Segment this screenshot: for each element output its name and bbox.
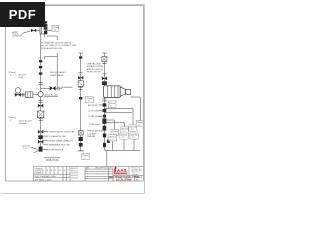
svg-text:0: 0 xyxy=(86,170,87,172)
svg-text:ACONMED 2.2013: ACONMED 2.2013 xyxy=(35,178,53,181)
svg-text:20mm FL-200: 20mm FL-200 xyxy=(45,94,59,96)
svg-text:1": 1" xyxy=(84,157,86,159)
svg-text:OPEN VALVE: OPEN VALVE xyxy=(50,74,64,77)
svg-text:AAS: AAS xyxy=(117,168,127,173)
valve on cross link xyxy=(50,86,56,91)
wire: small link y96 xyxy=(44,95,58,97)
svg-text:WIRE: WIRE xyxy=(12,33,18,35)
titleblock tiny text left xyxy=(35,167,113,181)
svg-text:FCAL.2mm: FCAL.2mm xyxy=(90,123,100,126)
svg-text:NON STANDARD DWG: NON STANDARD DWG xyxy=(35,175,57,178)
tag C2 xyxy=(120,133,128,139)
flowmeter riser stub xyxy=(44,21,47,27)
svg-text:DESCRIPTION: DESCRIPTION xyxy=(95,168,108,170)
svg-text:A: A xyxy=(47,169,49,172)
strainer box xyxy=(37,111,44,117)
pipe D vertical xyxy=(102,53,107,151)
svg-text:Nm MEMBRANE: Nm MEMBRANE xyxy=(57,86,73,89)
svg-text:(25B): (25B) xyxy=(18,77,23,79)
pipe C vertical xyxy=(78,53,83,151)
svg-text:1": 1" xyxy=(10,75,12,77)
svg-text:2" FL: 2" FL xyxy=(23,148,29,150)
valve V2 on pipe A xyxy=(38,104,43,108)
svg-text:FLOWMETER WITH ISOLATION: FLOWMETER WITH ISOLATION xyxy=(41,41,72,44)
logo AAS red xyxy=(114,167,128,175)
tag B3 xyxy=(129,125,136,131)
riser flange stack xyxy=(44,21,48,33)
svg-text:LOCAL DRAW: LOCAL DRAW xyxy=(116,179,132,182)
leaders bottom-left labels xyxy=(43,132,48,150)
tag box 12mm OD xyxy=(52,25,59,31)
svg-text:0-16 BAR: 0-16 BAR xyxy=(87,132,97,135)
pipe C components xyxy=(79,56,82,58)
ladder line 2 xyxy=(104,112,132,114)
svg-text:TOTAL HOSE: TOTAL HOSE xyxy=(88,115,102,118)
svg-text:C: C xyxy=(55,170,57,172)
logo right text xyxy=(132,166,143,176)
leader above titleblock xyxy=(34,151,39,154)
lower pipe A components xyxy=(38,130,43,152)
overline mob xyxy=(44,157,60,159)
svg-text:PIPING FITTED: PIPING FITTED xyxy=(87,72,102,74)
leader 50mm-2FL xyxy=(31,147,38,150)
svg-text:[25mm]: [25mm] xyxy=(9,72,16,74)
drawing frame xyxy=(6,6,144,182)
wire: top elbow down xyxy=(47,36,57,57)
tag box 2mm xyxy=(108,101,116,107)
leader wire conduit xyxy=(22,31,31,34)
branch pipe left xyxy=(15,94,41,96)
pipe D flanges below pump xyxy=(102,99,106,101)
svg-text:CONDUIT: CONDUIT xyxy=(12,35,23,37)
tag B2 xyxy=(121,127,128,133)
svg-text:A3: A3 xyxy=(136,178,138,181)
svg-text:BREAKER LEVEL: BREAKER LEVEL xyxy=(87,65,105,68)
drops from tag row2 xyxy=(113,139,134,150)
valve top bowtie xyxy=(31,29,36,33)
pipe D upper valve xyxy=(102,57,107,62)
svg-text:[50mm]: [50mm] xyxy=(23,145,30,147)
tag box 25mm-1 (pump) xyxy=(85,96,93,102)
wire: top pipe xyxy=(31,30,52,32)
drawing sheet svg xyxy=(0,0,149,198)
tag box gaugebottom xyxy=(82,153,90,159)
drop to title block xyxy=(106,150,108,166)
svg-text:HOSE NOZZLE: HOSE NOZZLE xyxy=(49,149,64,151)
svg-text:MOB-HO23: MOB-HO23 xyxy=(46,159,59,162)
svg-text:2": 2" xyxy=(10,120,12,122)
svg-text:E: E xyxy=(64,170,66,172)
svg-text:CHECK VALVE 20 FNPT AL: CHECK VALVE 20 FNPT AL xyxy=(49,131,76,134)
page edge top xyxy=(0,4,145,6)
svg-text:D: D xyxy=(59,170,61,172)
ladder line 4 xyxy=(104,123,124,127)
branch flange ticks xyxy=(22,93,24,97)
pump outlet box xyxy=(126,89,131,94)
svg-text:DRAWING: DRAWING xyxy=(35,172,44,175)
svg-text:PRESSURE GAUGE: PRESSURE GAUGE xyxy=(87,130,107,133)
sheet cell text xyxy=(136,176,143,181)
title block xyxy=(34,167,144,181)
svg-text:F: F xyxy=(67,170,69,172)
ladder line 1 xyxy=(104,109,133,125)
svg-text:mm OD TUBE UP TO CONNECT PIPE: mm OD TUBE UP TO CONNECT PIPE xyxy=(41,45,77,47)
PDF badge xyxy=(0,2,45,27)
tag C3 xyxy=(130,133,138,139)
page edge right xyxy=(144,5,146,194)
svg-text:AND ALL HATCH: AND ALL HATCH xyxy=(87,68,104,71)
fittings on pipe A upper xyxy=(39,60,42,75)
title text xyxy=(109,177,140,182)
pump body xyxy=(104,86,121,98)
pump cone xyxy=(120,87,125,97)
svg-text:& Works: & Works xyxy=(132,174,139,176)
svg-text:[50mm]: [50mm] xyxy=(9,117,16,119)
dimension line mid xyxy=(45,34,58,59)
svg-text:SMOKE EASILY: SMOKE EASILY xyxy=(50,71,67,74)
svg-text:03-02-13: 03-02-13 xyxy=(71,178,78,180)
svg-text:FMB, AB: FMB, AB xyxy=(87,135,96,138)
tag C1 xyxy=(108,135,116,141)
svg-text:B: B xyxy=(51,170,53,172)
manifold bottom xyxy=(104,149,140,151)
tiny texts xyxy=(9,27,144,162)
pump outlet line right xyxy=(131,97,141,120)
svg-text:COUPLING: COUPLING xyxy=(88,110,99,112)
svg-text:LINE VACUUM: LINE VACUUM xyxy=(87,62,101,65)
svg-text:AIR VENT: AIR VENT xyxy=(88,104,98,107)
flowmeter body xyxy=(40,27,47,34)
pipe B vertical xyxy=(56,57,58,89)
tee blob on pipe A xyxy=(38,92,43,97)
page edge bottom xyxy=(1,193,145,195)
leaders pipeD small xyxy=(99,105,103,116)
wire: cross link y88 xyxy=(41,87,62,89)
svg-text:(400Gm): (400Gm) xyxy=(19,123,28,125)
tag B1 xyxy=(111,129,118,135)
handwheel valve xyxy=(15,88,20,93)
gauge valve box pipe C xyxy=(78,131,83,135)
air vent fitting xyxy=(103,103,107,117)
flanged fitting xyxy=(26,92,33,98)
flange pair xyxy=(39,101,43,103)
svg-text:STRAIGHT HOSE: STRAIGHT HOSE xyxy=(49,135,67,138)
ladder line 3 xyxy=(104,120,114,129)
svg-text:MEMBRANE HOLDER: MEMBRANE HOLDER xyxy=(49,144,71,147)
svg-text:WITH AN INTERLUDE: WITH AN INTERLUDE xyxy=(41,47,62,50)
svg-text:HEAVY WEAR CAPACITY: HEAVY WEAR CAPACITY xyxy=(49,139,74,142)
tag B4 xyxy=(136,120,143,126)
svg-text:FLT: FLT xyxy=(57,90,61,92)
svg-text:20mm FL-200: 20mm FL-200 xyxy=(19,120,33,122)
pipe A main vertical xyxy=(40,34,42,152)
pipe D dark stack lower xyxy=(102,118,110,147)
